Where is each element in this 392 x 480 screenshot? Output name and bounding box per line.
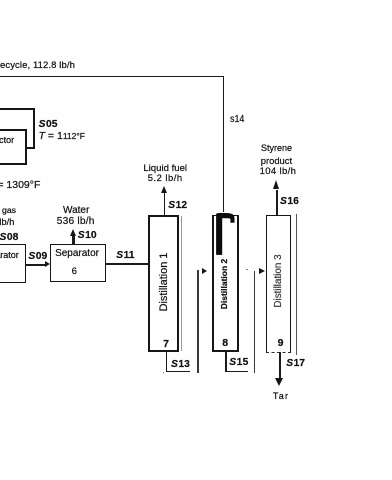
label lb/h (clipped) <box>0 217 14 227</box>
reactor outer box <box>0 108 35 149</box>
label Liquid fuel <box>135 163 195 174</box>
node S05 label <box>39 119 58 130</box>
speck near S13 <box>163 372 165 373</box>
separator label <box>49 248 105 259</box>
arrowhead S16 <box>273 180 279 189</box>
distillation column 2 box <box>212 215 238 352</box>
wire riser to column 2 <box>197 270 198 373</box>
reactor inner box (Reactor) <box>0 129 27 165</box>
wire riser to column 3 <box>254 271 255 373</box>
arrowhead S09 <box>45 261 50 267</box>
thick feed hook (r shape) <box>214 210 238 258</box>
node S08 label <box>0 232 18 243</box>
label gas (clipped) <box>2 205 16 215</box>
wire S09 <box>26 264 45 266</box>
reactor label (clipped) <box>0 135 14 145</box>
column 2 number 8 <box>215 337 235 349</box>
column 3 number 9 <box>271 337 291 349</box>
arrowhead feed column 2 <box>202 268 207 274</box>
speck near column 2 <box>246 269 248 271</box>
node S15 label <box>229 357 248 368</box>
column 1 number 7 <box>156 338 176 350</box>
wire S15 vertical <box>225 351 227 372</box>
distillation column 3 box <box>266 215 292 353</box>
column 1 right shadow <box>180 216 183 351</box>
stream S17 arrow stem <box>279 352 281 378</box>
separator box U6 <box>50 244 106 283</box>
label 5.2 lb/h <box>135 172 195 183</box>
node S09 label <box>28 251 47 262</box>
label Tar <box>273 391 289 401</box>
recycle stream text <box>0 60 75 71</box>
wire S11 <box>106 263 149 265</box>
label Styrene <box>261 143 292 153</box>
wire: recycle top line <box>0 76 224 78</box>
label T=1112F <box>39 130 85 142</box>
column 3 rotated label <box>273 241 285 321</box>
node S17 label <box>286 358 305 369</box>
node S10 label <box>78 230 97 241</box>
column 1 rotated label <box>158 242 170 322</box>
label T=1309F (clipped) <box>0 179 40 191</box>
label 104 lb/h <box>260 166 297 177</box>
distillation column 1 box <box>148 215 179 352</box>
node S12 label <box>168 200 187 211</box>
label product <box>261 155 292 166</box>
wire: s14 vertical <box>223 76 225 212</box>
column 3 right shadow <box>296 214 297 355</box>
label Water <box>63 205 89 216</box>
wire S13 vertical <box>166 352 168 373</box>
node S16 label <box>280 196 299 207</box>
arrowhead S12 <box>161 186 167 193</box>
stream S12 arrow stem <box>164 193 166 214</box>
left separator box (clipped) <box>0 244 26 284</box>
arrowhead S17 <box>275 378 283 386</box>
wire S13 horizontal <box>166 371 191 373</box>
node S11 label <box>116 250 134 261</box>
stream S16 arrow stem <box>276 190 278 215</box>
wire S15 horizontal <box>225 371 248 373</box>
arrowhead feed column 3 <box>259 268 265 274</box>
stream S10 arrow stem <box>72 236 75 244</box>
left separator label (clipped) <box>0 250 19 260</box>
separator number 6 <box>64 266 84 277</box>
label 536 lb/h <box>57 216 95 227</box>
column 2 rotated label <box>219 244 231 324</box>
arrowhead S10 <box>70 229 76 236</box>
node S13 label <box>171 359 190 370</box>
node s14 label <box>230 113 244 125</box>
